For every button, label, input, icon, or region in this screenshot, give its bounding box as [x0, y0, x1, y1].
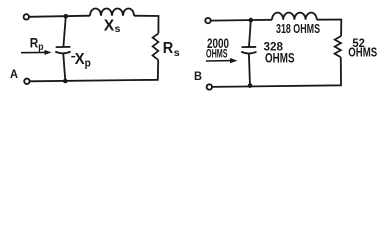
- label 328: [264, 40, 284, 54]
- terminal A bottom: [24, 79, 29, 84]
- capacitor Xp: [55, 16, 70, 81]
- label Rp: [30, 36, 44, 53]
- svg-text:OHMS: OHMS: [206, 46, 228, 60]
- arrow 2000 ohms: [206, 58, 238, 63]
- wire top B: [211, 19, 272, 22]
- label 328 OHMS: [265, 51, 295, 66]
- arrow Rp: [21, 50, 52, 55]
- svg-text:318 OHMS: 318 OHMS: [276, 22, 320, 36]
- junction A bottom: [63, 79, 68, 84]
- wire A top-right corner: [134, 16, 159, 34]
- svg-text:B: B: [194, 70, 202, 83]
- wire top A: [29, 16, 90, 17]
- inductor 318 ohms: [272, 13, 317, 20]
- inductor Xs: [90, 9, 134, 16]
- label Xs: [104, 18, 121, 36]
- label 2000 OHMS: [206, 46, 228, 60]
- label 2000: [207, 36, 229, 51]
- svg-text:p: p: [85, 58, 91, 70]
- wire A right-lower: [30, 60, 159, 82]
- junction B bottom: [248, 83, 253, 88]
- terminal B top: [205, 18, 210, 23]
- resistor 52 ohms: [335, 36, 342, 57]
- node A: [10, 67, 18, 81]
- svg-text:s: s: [174, 47, 180, 59]
- label 318 OHMS: [276, 22, 320, 36]
- label 52: [352, 36, 365, 50]
- wire B top-right corner: [317, 20, 342, 37]
- svg-text:OHMS: OHMS: [348, 44, 377, 59]
- resistor Rs: [153, 34, 159, 60]
- label 52 OHMS: [348, 44, 377, 59]
- label Xp: [71, 51, 91, 70]
- svg-text:A: A: [10, 67, 18, 81]
- svg-text:X: X: [104, 18, 115, 35]
- label Rs: [163, 40, 180, 59]
- svg-text:X: X: [75, 51, 85, 68]
- svg-text:s: s: [115, 23, 121, 35]
- svg-text:p: p: [38, 42, 43, 53]
- junction B top: [249, 18, 254, 23]
- capacitor 328 ohms: [241, 20, 256, 86]
- svg-text:OHMS: OHMS: [265, 51, 295, 66]
- terminal A top: [24, 14, 29, 19]
- node B: [194, 70, 202, 83]
- junction A top: [64, 14, 69, 19]
- terminal B bottom: [207, 84, 212, 89]
- svg-text:R: R: [163, 40, 174, 57]
- wire B right-lower: [212, 57, 341, 87]
- svg-text:R: R: [30, 36, 39, 51]
